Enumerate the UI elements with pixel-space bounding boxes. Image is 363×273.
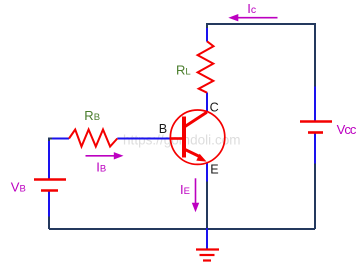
wire blue RB to base <box>117 138 170 140</box>
transistor collector limb <box>185 112 207 126</box>
battery VB <box>34 180 66 191</box>
svg-text:Ic: Ic <box>247 1 256 16</box>
wire blue left battery bottom lead <box>48 192 50 217</box>
wire emitter navy segment <box>206 181 208 228</box>
wire blue left horizontal to RB <box>52 138 69 140</box>
wire top-left horizontal navy stub <box>48 138 53 140</box>
wire blue emitter lead <box>206 163 208 182</box>
wire blue RL top lead <box>206 28 208 42</box>
wire left vertical navy bottom <box>48 216 50 229</box>
wire left vertical navy stub top <box>48 138 50 143</box>
transistor Q1 circle <box>170 110 224 164</box>
current arrow IB <box>86 152 124 159</box>
current arrow IE <box>192 178 199 212</box>
transistor emitter limb <box>185 150 200 157</box>
svg-text:RB: RB <box>84 108 100 123</box>
wire blue right battery top lead <box>314 87 316 122</box>
battery Vcc <box>300 122 332 133</box>
wire blue ground stem <box>206 228 208 249</box>
svg-text:Vcc: Vcc <box>337 122 357 137</box>
transistor base lead red <box>170 137 183 140</box>
transistor emitter arrowhead <box>196 154 206 162</box>
wire right vertical navy bottom <box>314 163 316 229</box>
resistor RB <box>69 130 117 147</box>
wire bottom horizontal navy <box>49 228 315 230</box>
svg-text:B: B <box>159 122 167 136</box>
svg-text:IE: IE <box>180 182 190 197</box>
ground <box>196 250 219 261</box>
wire blue RL bottom to collector <box>206 93 208 113</box>
svg-text:IB: IB <box>96 159 106 174</box>
wire blue left battery top lead <box>48 141 50 179</box>
current arrow Ic <box>228 14 277 21</box>
wire blue right battery bottom lead <box>314 134 316 164</box>
transistor base bar <box>182 117 186 158</box>
resistor RL <box>198 41 214 92</box>
wire top horizontal navy with corner stubs <box>207 24 315 87</box>
svg-text:RL: RL <box>176 63 191 78</box>
svg-text:E: E <box>210 163 218 177</box>
svg-text:VB: VB <box>11 179 26 194</box>
svg-text:C: C <box>210 100 219 114</box>
